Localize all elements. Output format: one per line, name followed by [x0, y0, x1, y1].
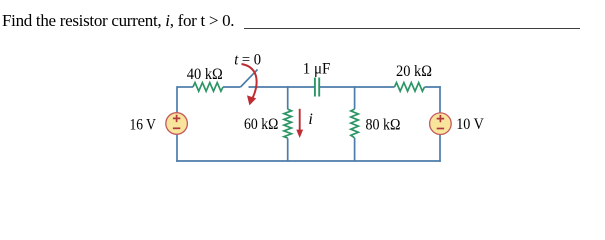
answer blank line	[244, 28, 580, 29]
wire left vertical below source	[176, 134, 178, 162]
resistor R 60k vertical zigzag	[284, 109, 292, 138]
voltage source V2 10V circle	[430, 113, 452, 135]
resistor R 20k zigzag	[395, 83, 425, 92]
svg-text:i: i	[308, 111, 312, 128]
wire right vertical below source	[439, 134, 441, 161]
svg-text:16 V: 16 V	[130, 116, 157, 133]
resistor R 80k vertical zigzag	[351, 109, 359, 138]
wire top: 40k resistor to switch	[223, 86, 241, 88]
resistor R 40k zigzag	[193, 83, 223, 92]
svg-text:1 μF: 1 μF	[303, 61, 331, 78]
svg-text:60 kΩ: 60 kΩ	[244, 116, 278, 133]
current arrow i shaft	[299, 109, 301, 131]
problem statement text	[2, 11, 234, 31]
wire top: capacitor right plate to 20k resistor	[320, 86, 395, 88]
wire bottom horizontal	[176, 160, 441, 162]
wire right vertical above source	[439, 86, 441, 113]
switch closing arc arrow	[242, 64, 257, 99]
switch arc arrowhead	[247, 95, 256, 105]
current arrow i head	[296, 130, 303, 138]
wire top: 20k resistor to right corner	[425, 86, 441, 88]
wire: left vertical top segment	[176, 70, 441, 162]
svg-text:10 V: 10 V	[456, 116, 484, 133]
wire top-left horizontal	[177, 86, 193, 88]
voltage source V1 16V circle	[166, 113, 188, 135]
capacitor C plates	[315, 78, 319, 97]
wire 80k branch top	[354, 86, 356, 109]
svg-text:80 kΩ: 80 kΩ	[366, 116, 401, 133]
switch blade	[241, 70, 258, 88]
wire 80k branch bottom	[354, 138, 356, 161]
wire top: switch to capacitor left plate	[249, 86, 315, 88]
svg-text:40 kΩ: 40 kΩ	[187, 66, 223, 83]
voltage source V1 plus/minus	[173, 115, 180, 129]
voltage source V2 plus/minus	[437, 115, 444, 129]
wire 60k branch bottom	[287, 138, 289, 161]
wire 60k branch top	[287, 86, 289, 109]
svg-text:t = 0: t = 0	[234, 51, 261, 68]
svg-text:20 kΩ: 20 kΩ	[396, 63, 432, 80]
wire left vertical above source	[176, 86, 178, 113]
